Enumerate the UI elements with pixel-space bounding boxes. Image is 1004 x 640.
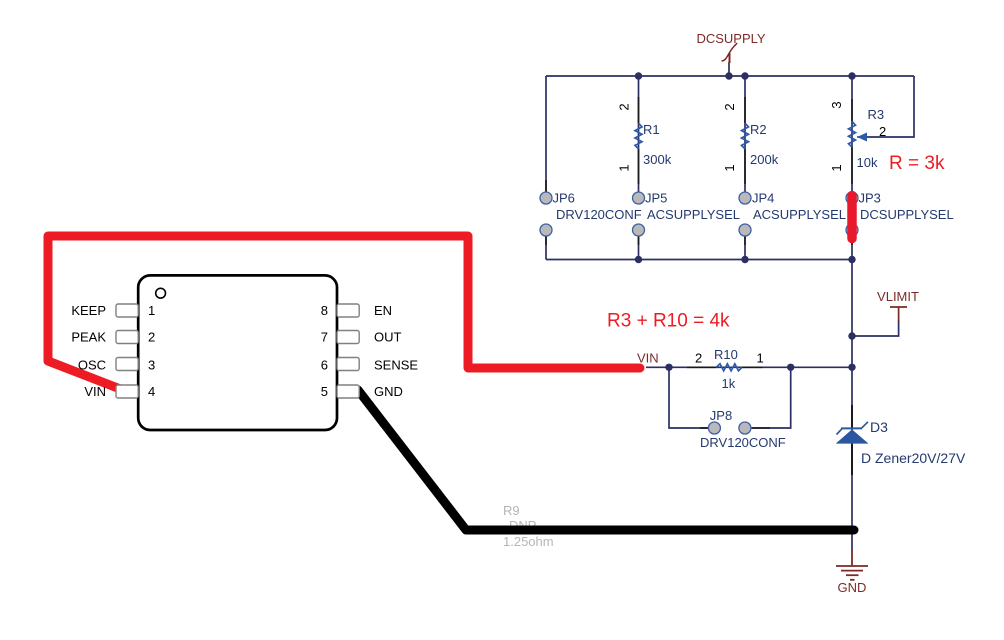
svg-text:R = 3k: R = 3k [889,153,945,174]
thick black annotation wire [358,390,854,530]
potentiometer R3 zigzag [849,122,856,148]
svg-text:4: 4 [148,384,155,399]
svg-text:R3 + R10 = 4k: R3 + R10 = 4k [607,311,730,332]
wire R2 column [744,76,746,192]
svg-text:ACSUPPLYSEL: ACSUPPLYSEL [753,207,846,222]
svg-text:2: 2 [879,124,886,139]
black pin stubs R1 [546,97,852,475]
junction dots top rail [635,72,856,371]
svg-text:VIN: VIN [637,351,659,366]
svg-text:7: 7 [321,330,328,345]
svg-text:VLIMIT: VLIMIT [877,289,919,304]
wire DCSUPPLY stub [728,62,730,76]
IC pin boxes right [337,304,359,317]
svg-text:1: 1 [757,351,764,366]
IC pin name labels [71,303,418,399]
svg-text:2: 2 [148,330,155,345]
svg-text:JP6: JP6 [553,191,575,206]
JP3 red shunt bar [847,196,857,239]
zener diode D3 right tick [862,422,869,428]
junction dots VIN row [665,364,672,371]
wire main vertical [851,260,853,551]
wire JP8 loop right [752,367,791,428]
wire VIN row [646,366,852,368]
black pin stubs zener [851,405,853,429]
VLIMIT symbol [898,307,900,321]
svg-text:R1: R1 [643,122,660,137]
svg-text:ACSUPPLYSEL: ACSUPPLYSEL [647,207,740,222]
svg-text:GND: GND [838,580,867,595]
black pin stubs JP8 [700,427,709,429]
jumper JP4 pads [739,192,751,204]
resistor R2 zigzag [742,123,749,149]
svg-text:1: 1 [617,164,632,171]
svg-text:R2: R2 [750,122,767,137]
junction dot VLIMIT [848,332,855,339]
svg-text:DRV120CONF: DRV120CONF [700,435,786,450]
potentiometer R3 wiper arrow [857,136,866,138]
svg-text:5: 5 [321,384,328,399]
junction dots bottom rail [635,256,642,263]
zener diode D3 bar [841,427,862,429]
black pin stubs R3 [851,99,853,122]
svg-text:300k: 300k [643,152,672,167]
resistor R1 zigzag [635,123,642,149]
svg-text:DCSUPPLYSEL: DCSUPPLYSEL [860,207,954,222]
wire top rail [546,75,914,77]
svg-text:KEEP: KEEP [71,303,106,318]
wire JP8 loop left [669,367,708,428]
svg-text:2: 2 [722,103,737,110]
svg-text:10k: 10k [857,155,878,170]
svg-text:GND: GND [374,384,403,399]
svg-text:3: 3 [148,358,155,373]
jumper JP5 pads [633,192,645,204]
svg-text:3: 3 [829,101,844,108]
svg-text:R9: R9 [503,503,520,518]
svg-text:PEAK: PEAK [71,330,106,345]
svg-text:2: 2 [695,351,702,366]
svg-text:OSC: OSC [78,358,106,373]
wire R1 column [638,76,640,192]
resistor R10 zigzag [716,364,742,371]
wire JP6 column [545,76,547,192]
zener diode D3 triangle [836,429,869,443]
black pin stubs JP pads [545,180,547,192]
svg-text:1: 1 [722,164,737,171]
svg-text:JP8: JP8 [710,408,732,423]
svg-text:6: 6 [321,358,328,373]
IC pin boxes left [116,304,359,398]
svg-text:1k: 1k [722,376,736,391]
svg-text:R3: R3 [868,107,885,122]
svg-text:8: 8 [321,303,328,318]
jumper JP3 pads [846,192,858,204]
svg-text:SENSE: SENSE [374,358,418,373]
thick red annotation wire [48,236,640,392]
jumper JP8 pads [708,422,720,434]
svg-text:DRV120CONF: DRV120CONF [556,207,642,222]
svg-text:2: 2 [617,103,632,110]
svg-text:JP4: JP4 [752,191,774,206]
wire VLIMIT tap [852,320,899,336]
svg-text:DCSUPPLY: DCSUPPLY [696,31,765,46]
svg-text:D Zener20V/27V: D Zener20V/27V [861,450,966,466]
svg-text:200k: 200k [750,152,779,167]
svg-text:VIN: VIN [84,384,106,399]
wire R3 feedback loop [866,76,914,137]
IC U1 body [138,275,337,430]
svg-text:JP3: JP3 [859,191,881,206]
wire bottom rail [546,259,852,261]
svg-text:OUT: OUT [374,330,402,345]
svg-text:EN: EN [374,303,392,318]
svg-text:1.25ohm: 1.25ohm [503,534,554,549]
svg-text:1: 1 [829,164,844,171]
jumper JP6 pads [540,192,858,434]
DCSUPPLY squiggle [722,43,738,61]
svg-text:1: 1 [148,303,155,318]
svg-text:JP5: JP5 [645,191,667,206]
black pin stubs R10 [687,366,717,368]
IC pin numbers [148,303,328,399]
wire R3 column [851,76,853,192]
svg-text:R10: R10 [714,347,738,362]
black pin stubs R2 [744,97,746,123]
svg-text:D3: D3 [870,419,888,435]
IC pin-1 marker circle [156,288,166,298]
zener diode D3 left tick [837,429,843,435]
ground symbol [836,550,868,580]
